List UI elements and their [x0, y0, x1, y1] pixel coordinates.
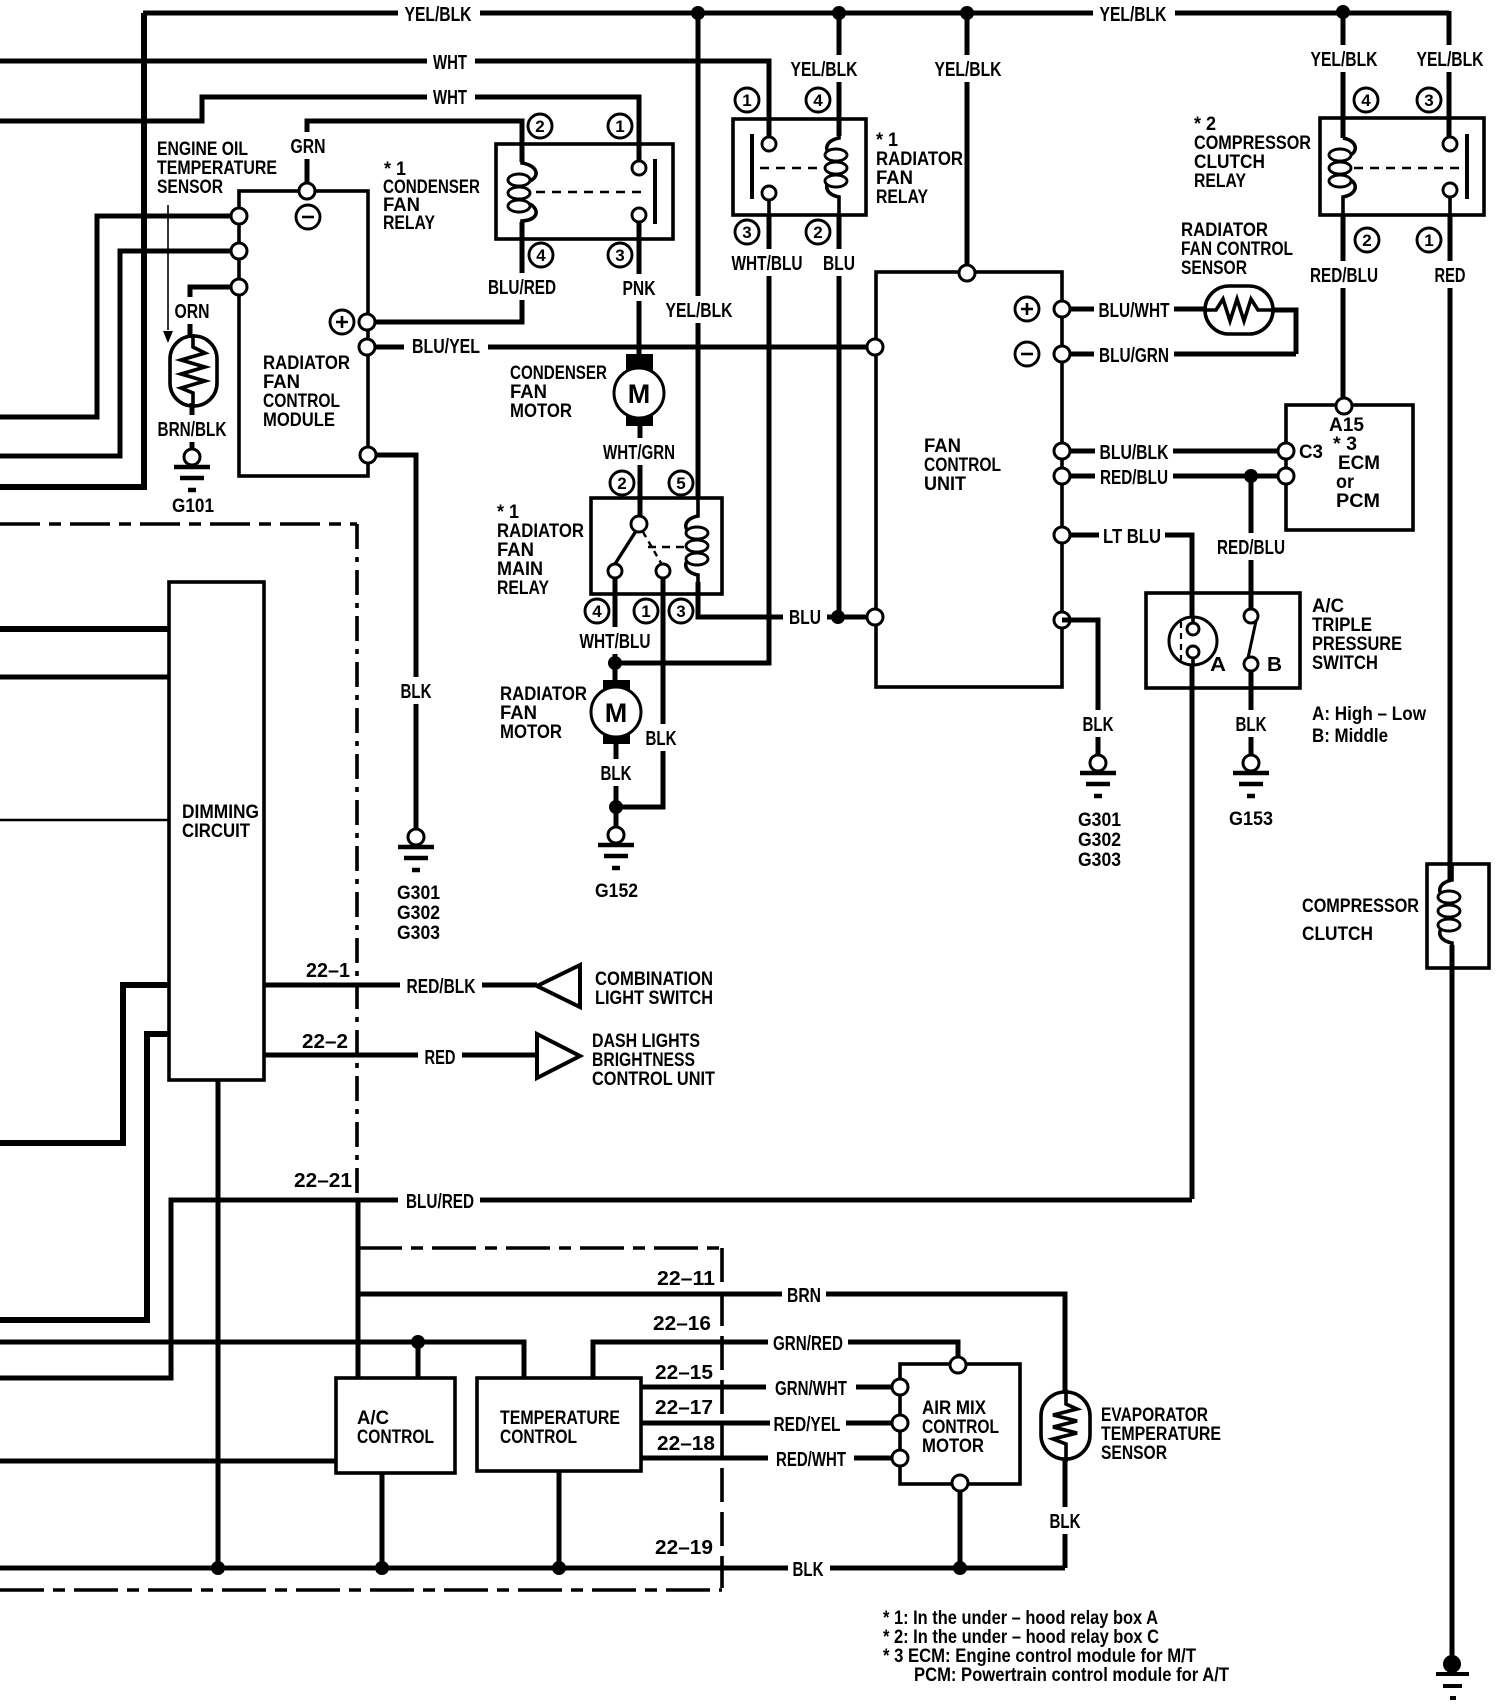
wire left into dimming circuit 2: [0, 675, 169, 680]
wire GRN/WHT: [641, 1385, 900, 1390]
svg-text:G303: G303: [1078, 850, 1121, 871]
wire 22-2 RED to dash lights unit: [264, 1053, 537, 1058]
pin circles radiator fan relay: [735, 88, 759, 112]
pressure switch A sensor circle: [1169, 617, 1217, 665]
label RED/BLK: [400, 972, 482, 999]
svg-text:* 1: * 1: [497, 502, 519, 523]
wire RED/YEL: [641, 1421, 900, 1426]
svg-text:A/C: A/C: [1312, 596, 1344, 617]
svg-text:RELAY: RELAY: [383, 213, 435, 234]
radiator fan control sensor body: [1205, 286, 1273, 334]
label YEL/BLK above fan control unit: [930, 55, 1008, 82]
label WHT upper: [427, 47, 475, 75]
label GRN: [288, 132, 328, 159]
fan control unit right ports: [1054, 301, 1070, 317]
wire YEL/BLK left feeder vertical: [0, 13, 144, 487]
label BLK fan control unit ground: [1077, 710, 1119, 737]
connector 22 dash-dot jog: [358, 1246, 722, 1250]
wire module port1 to left edge: [0, 216, 239, 417]
wire RED compressor relay pin1 to compressor clutch: [1448, 215, 1453, 880]
radiator fan relay box: [733, 119, 866, 215]
compressor relay contact: [1448, 136, 1452, 215]
svg-text:4: 4: [813, 91, 823, 110]
wire 22-19 BLK run: [0, 1566, 1065, 1571]
svg-text:MOTOR: MOTOR: [922, 1436, 984, 1457]
wire BLU main relay pin3 to fan control unit: [698, 582, 875, 617]
svg-text:22–1: 22–1: [306, 960, 350, 982]
fan control unit box: [876, 272, 1062, 687]
svg-text:G301: G301: [397, 883, 440, 904]
wire compressor clutch to ground: [1450, 945, 1455, 1660]
wire A/C control top tap: [416, 1342, 421, 1378]
svg-text:G153: G153: [1229, 809, 1273, 830]
svg-text:RADIATOR: RADIATOR: [497, 521, 584, 542]
wire left into dimming circuit 3 thin: [0, 819, 169, 822]
wire dimming circuit bottom to 22-19: [216, 1080, 221, 1568]
wire BLU/RED condenser relay pin4 to module plus port: [367, 222, 522, 322]
wire left into dimming circuit 1: [0, 626, 169, 632]
svg-text:FAN: FAN: [497, 540, 534, 561]
svg-text:RADIATOR: RADIATOR: [263, 353, 350, 374]
condenser fan motor: [626, 354, 653, 372]
ground compressor clutch: [1443, 1655, 1461, 1673]
svg-text:WHT/BLU: WHT/BLU: [732, 253, 803, 275]
wire main relay pin1 down to BLK junction: [616, 578, 663, 807]
ECM or PCM box: [1286, 405, 1413, 530]
svg-text:BLK: BLK: [401, 681, 432, 703]
evaporator temperature sensor body: [1041, 1392, 1090, 1459]
wire WHT/BLU main relay pin4 to radiator fan motor: [613, 578, 618, 682]
svg-text:G303: G303: [397, 923, 440, 944]
label RED/BLU: [1095, 465, 1173, 489]
svg-text:BRN: BRN: [787, 1285, 821, 1307]
main relay common contact and blade: [631, 516, 647, 532]
label YEL/BLK above pin3: [1411, 45, 1489, 72]
label YEL/BLK above pin4: [1305, 45, 1383, 72]
svg-text:BLU/WHT: BLU/WHT: [1099, 300, 1170, 322]
svg-text:PRESSURE: PRESSURE: [1312, 634, 1402, 655]
svg-text:GRN/WHT: GRN/WHT: [775, 1378, 847, 1400]
compressor relay coil: [1343, 138, 1355, 215]
wire fan control unit left port BLU (drawn in condenser sec) port: [867, 339, 883, 355]
label PNK: [619, 274, 659, 301]
label YEL/BLK on rail middle: [1093, 0, 1175, 28]
wire BRN/BLK oil sensor to ground: [190, 403, 195, 449]
pressure switch B contact: [1244, 609, 1258, 623]
radiator fan motor: [603, 680, 630, 698]
label RED/YEL: [770, 1410, 846, 1437]
svg-text:4: 4: [1361, 91, 1371, 110]
svg-text:DASH LIGHTS: DASH LIGHTS: [592, 1031, 700, 1052]
wire BLK pressure switch B to ground: [1249, 688, 1254, 756]
svg-text:RED/WHT: RED/WHT: [776, 1449, 846, 1471]
wire LT BLU to pressure switch A and down to BLU/RED run: [1062, 535, 1192, 1199]
svg-text:BLU: BLU: [823, 253, 855, 275]
label WHT/BLU below pin3: [729, 249, 807, 276]
wire RED/WHT: [641, 1456, 900, 1461]
svg-text:B: Middle: B: Middle: [1312, 726, 1388, 747]
svg-text:22–16: 22–16: [653, 1313, 711, 1335]
junction dot BLU at fan control unit: [831, 610, 845, 624]
svg-text:BLK: BLK: [646, 728, 677, 750]
wire BLU/BLK to ECM: [1062, 449, 1286, 454]
svg-text:22–15: 22–15: [655, 1362, 713, 1384]
svg-text:DIMMING: DIMMING: [182, 802, 259, 823]
svg-text:MAIN: MAIN: [497, 559, 543, 580]
svg-text:EVAPORATOR: EVAPORATOR: [1101, 1405, 1208, 1426]
wire WHT/GRN motor to main relay: [638, 425, 643, 517]
svg-text:3: 3: [676, 602, 685, 621]
svg-text:CONTROL: CONTROL: [922, 1417, 999, 1438]
junction dot motor ground: [609, 800, 623, 814]
svg-text:RADIATOR: RADIATOR: [876, 149, 963, 170]
svg-text:GRN: GRN: [291, 136, 326, 158]
connector 22 dashed vertical lower: [720, 1248, 724, 1588]
svg-text:RED/BLK: RED/BLK: [407, 976, 476, 998]
ground G153: [1243, 755, 1259, 771]
wire BLU/RED branch down to A/C control: [356, 1200, 361, 1378]
wire YEL/BLK to compressor relay pin4: [1341, 11, 1346, 138]
arrow from sensor label to sensor: [167, 205, 169, 330]
main relay coil: [686, 498, 698, 594]
A/C triple pressure switch box: [1146, 593, 1300, 688]
svg-text:* 3 ECM: Engine control modul: * 3 ECM: Engine control module for M/T: [883, 1646, 1196, 1667]
label YEL/BLK on top rail left: [398, 0, 480, 28]
svg-text:YEL/BLK: YEL/BLK: [935, 59, 1002, 81]
svg-text:22–21: 22–21: [294, 1170, 352, 1192]
svg-text:22–17: 22–17: [655, 1397, 713, 1419]
svg-text:LIGHT SWITCH: LIGHT SWITCH: [595, 988, 713, 1009]
svg-text:FAN: FAN: [876, 168, 913, 189]
svg-text:M: M: [605, 698, 628, 728]
svg-text:WHT: WHT: [433, 52, 467, 74]
svg-text:BLK: BLK: [1083, 714, 1114, 736]
wire left to A/C control: [0, 1459, 336, 1464]
svg-text:* 2: In the under – hood relay: * 2: In the under – hood relay box C: [883, 1627, 1159, 1648]
svg-text:G101: G101: [172, 496, 214, 517]
compressor clutch box: [1427, 864, 1489, 968]
label RED: [418, 1043, 462, 1070]
wire sensor loop to BLU/GRN: [1273, 310, 1296, 354]
svg-text:RADIATOR: RADIATOR: [1181, 220, 1268, 241]
wire YEL/BLK rail end to compressor relay pin3: [1447, 11, 1452, 136]
wire BLU/GRN: [1062, 352, 1296, 357]
svg-text:BLU/YEL: BLU/YEL: [412, 336, 480, 358]
radiator fan main relay box: [591, 498, 722, 594]
label RED/BLU on pressure switch B wire: [1212, 533, 1290, 560]
label BLK below motor: [596, 759, 638, 786]
svg-text:22–2: 22–2: [302, 1031, 348, 1053]
svg-text:G302: G302: [1078, 830, 1121, 851]
svg-text:RED/BLU: RED/BLU: [1217, 537, 1285, 559]
wire left into dimming circuit 5: [0, 1034, 169, 1320]
svg-text:C3: C3: [1299, 442, 1323, 463]
svg-text:FAN: FAN: [510, 382, 547, 403]
svg-text:SENSOR: SENSOR: [157, 177, 223, 198]
svg-text:RED/BLU: RED/BLU: [1310, 265, 1378, 287]
svg-text:4: 4: [536, 246, 546, 265]
svg-text:PCM: PCM: [1336, 491, 1380, 512]
svg-text:2: 2: [617, 474, 626, 493]
junction dot WHT/BLU: [608, 656, 622, 670]
svg-text:RADIATOR: RADIATOR: [500, 684, 587, 705]
wire RED/BLU to ECM: [1062, 474, 1286, 479]
wire ORN module port3 to oil temp sensor: [190, 287, 239, 338]
svg-text:CONTROL: CONTROL: [357, 1427, 434, 1448]
pin circles compressor relay: [1354, 88, 1378, 112]
svg-text:BLU/RED: BLU/RED: [488, 277, 556, 299]
svg-text:CONTROL: CONTROL: [263, 391, 340, 412]
wire GRN net to module top and condenser relay pin2: [307, 121, 522, 187]
label WHT/GRN: [598, 438, 680, 465]
radiator fan relay coil: [827, 119, 839, 215]
svg-text:BLK: BLK: [793, 1559, 824, 1581]
label GRN/RED: [768, 1329, 848, 1356]
svg-text:CONDENSER: CONDENSER: [510, 363, 607, 384]
connector 22 dash-dot boundary lower: [0, 1588, 722, 1592]
svg-text:* 3: * 3: [1333, 434, 1357, 455]
label BLK below evaporator sensor: [1044, 1507, 1086, 1534]
svg-text:CONTROL: CONTROL: [500, 1427, 577, 1448]
label RED/WHT: [768, 1445, 854, 1472]
junction dots on 22-19 run: [211, 1561, 225, 1575]
wire module lower port to ground: [368, 455, 416, 830]
air mix motor ports: [950, 1357, 966, 1373]
svg-text:YEL/BLK: YEL/BLK: [1100, 4, 1167, 26]
label BLK right of pin1 wire: [641, 724, 683, 751]
svg-text:MOTOR: MOTOR: [510, 401, 572, 422]
svg-text:BLK: BLK: [1236, 714, 1267, 736]
svg-text:2: 2: [1362, 231, 1371, 250]
module ports left: [231, 208, 247, 224]
svg-text:RELAY: RELAY: [497, 578, 549, 599]
wire temperature control bottom: [557, 1471, 562, 1568]
label ORN: [172, 297, 212, 324]
svg-text:FAN: FAN: [500, 703, 537, 724]
svg-text:1: 1: [641, 602, 650, 621]
radiator fan relay contact: [767, 136, 771, 215]
svg-text:YEL/BLK: YEL/BLK: [405, 4, 472, 26]
ground G301 G302 G303 left: [408, 829, 424, 845]
svg-text:3: 3: [742, 223, 751, 242]
svg-text:5: 5: [676, 474, 685, 493]
svg-text:YEL/BLK: YEL/BLK: [791, 59, 858, 81]
svg-text:TEMPERATURE: TEMPERATURE: [1101, 1424, 1221, 1445]
svg-text:BLK: BLK: [1050, 1511, 1081, 1533]
svg-text:COMPRESSOR: COMPRESSOR: [1302, 896, 1419, 917]
label YEL/BLK on vertical x698: [662, 296, 738, 323]
svg-text:COMBINATION: COMBINATION: [595, 969, 713, 990]
svg-text:RED/BLU: RED/BLU: [1100, 467, 1168, 489]
wire RED/BLU compressor relay pin2 to ECM: [1341, 215, 1346, 398]
svg-text:RED: RED: [1435, 265, 1466, 287]
wire BLK motor to ground: [614, 743, 619, 828]
svg-text:TRIPLE: TRIPLE: [1312, 615, 1372, 636]
wire PNK condenser relay pin3 to condenser fan motor: [637, 222, 642, 355]
svg-text:1: 1: [615, 117, 624, 136]
wire WHT lower from left to condenser fan relay pin1: [0, 97, 639, 160]
label RED below pin1: [1429, 261, 1471, 288]
dash lights triangle: [537, 1034, 580, 1078]
minus symbol on module: [296, 205, 320, 229]
svg-text:RED/YEL: RED/YEL: [774, 1414, 841, 1436]
svg-text:SWITCH: SWITCH: [1312, 653, 1378, 674]
svg-text:YEL/BLK: YEL/BLK: [666, 300, 733, 322]
label LT BLU: [1099, 522, 1165, 549]
svg-text:A: A: [1210, 654, 1226, 676]
pin circles condenser relay: [528, 114, 552, 138]
svg-text:ORN: ORN: [175, 301, 210, 323]
ECM left ports: [1278, 443, 1294, 459]
svg-text:1: 1: [1424, 231, 1433, 250]
svg-text:FAN CONTROL: FAN CONTROL: [1181, 239, 1293, 260]
wire BLU radiator fan relay pin2 down: [837, 215, 842, 617]
svg-text:ECM: ECM: [1338, 453, 1380, 474]
ground G152: [608, 827, 624, 843]
svg-text:or: or: [1336, 472, 1355, 493]
svg-text:PNK: PNK: [623, 278, 656, 300]
radiator fan control module box: [239, 191, 368, 476]
dimming circuit box: [169, 582, 264, 1080]
module ports right: [359, 314, 375, 330]
wire air mix motor bottom: [958, 1484, 963, 1568]
svg-text:MODULE: MODULE: [263, 410, 335, 431]
label BLU below pin2: [817, 249, 861, 276]
svg-text:G152: G152: [595, 881, 638, 902]
svg-text:* 1: In the under – hood relay: * 1: In the under – hood relay box A: [883, 1608, 1158, 1629]
wire A/C control bottom: [380, 1473, 385, 1568]
svg-text:GRN/RED: GRN/RED: [773, 1333, 843, 1355]
wire 22-16 left segment into temperature control: [0, 1342, 524, 1378]
svg-text:FAN: FAN: [924, 436, 961, 457]
svg-text:BLU: BLU: [789, 607, 821, 629]
svg-text:WHT: WHT: [433, 87, 467, 109]
wire evaporator sensor bottom to BLK run: [1063, 1459, 1068, 1568]
air mix control motor box: [900, 1364, 1020, 1484]
svg-text:3: 3: [1424, 91, 1433, 110]
wire YEL/BLK rail to radiator fan relay pin4: [837, 13, 842, 136]
svg-text:TEMPERATURE: TEMPERATURE: [500, 1408, 620, 1429]
wire 22-21 BLU/RED long run: [0, 1200, 1192, 1378]
engine oil temperature sensor body: [170, 336, 217, 406]
ground G101: [184, 449, 200, 465]
svg-text:RELAY: RELAY: [1194, 171, 1246, 192]
label BLU/WHT: [1094, 296, 1174, 323]
svg-text:ENGINE OIL: ENGINE OIL: [157, 139, 248, 160]
svg-text:CONTROL UNIT: CONTROL UNIT: [592, 1069, 715, 1090]
label BLU/YEL: [404, 332, 488, 360]
label BRN: [782, 1281, 826, 1308]
svg-text:AIR MIX: AIR MIX: [922, 1398, 986, 1419]
condenser fan relay coil: [522, 144, 536, 239]
wire GRN/RED temperature control to air mix motor: [593, 1342, 958, 1378]
A/C control box: [336, 1378, 455, 1473]
svg-text:BLU/RED: BLU/RED: [406, 1191, 474, 1213]
label BLK on module ground wire: [395, 677, 437, 704]
svg-text:CIRCUIT: CIRCUIT: [182, 821, 250, 842]
svg-text:BLU/BLK: BLU/BLK: [1100, 442, 1169, 464]
svg-text:1: 1: [742, 91, 751, 110]
pin circles main relay: [610, 471, 634, 495]
wire YEL/BLK rail to main relay coil: [696, 13, 701, 498]
svg-text:A: High – Low: A: High – Low: [1312, 704, 1426, 725]
label YEL/BLK above radiator fan relay: [786, 55, 864, 82]
combination light switch triangle: [537, 965, 580, 1007]
svg-text:RELAY: RELAY: [876, 187, 928, 208]
svg-text:* 1: * 1: [876, 130, 898, 151]
svg-text:CLUTCH: CLUTCH: [1302, 924, 1373, 945]
wire 22-11 BRN to evaporator sensor: [358, 1294, 1065, 1392]
label BLU/RED: [398, 1187, 480, 1214]
connector 22 dashed vertical upper: [355, 524, 359, 1200]
svg-text:SENSOR: SENSOR: [1101, 1443, 1167, 1464]
ECM top port: [1336, 398, 1352, 414]
svg-text:RED: RED: [425, 1047, 456, 1069]
svg-text:G301: G301: [1078, 810, 1121, 831]
svg-text:4: 4: [592, 602, 602, 621]
condenser fan relay contact: [637, 144, 641, 239]
fan control unit top port: [959, 265, 975, 281]
plus symbol on module: [330, 310, 354, 334]
junction dots on YEL/BLK rail: [691, 6, 705, 20]
svg-text:WHT/BLU: WHT/BLU: [580, 631, 651, 653]
svg-text:CLUTCH: CLUTCH: [1194, 152, 1265, 173]
svg-text:MOTOR: MOTOR: [500, 722, 562, 743]
svg-text:3: 3: [615, 246, 624, 265]
svg-text:A/C: A/C: [357, 1408, 389, 1429]
label GRN/WHT: [766, 1374, 856, 1401]
module port top (GRN): [299, 183, 315, 199]
label BLU/RED: [484, 273, 560, 300]
label BRN/BLK: [155, 415, 231, 442]
svg-text:BLU/GRN: BLU/GRN: [1099, 345, 1169, 367]
compressor clutch relay box: [1320, 118, 1484, 215]
wire YEL/BLK rail to fan control unit top: [965, 13, 970, 272]
svg-text:G302: G302: [397, 903, 440, 924]
connector 22 dash-dot boundary upper: [0, 522, 357, 526]
svg-text:FAN: FAN: [263, 372, 300, 393]
wire module port2 to left edge: [0, 251, 239, 456]
svg-text:22–18: 22–18: [657, 1433, 715, 1455]
minus symbol fan control unit: [1015, 342, 1039, 366]
svg-text:BRN/BLK: BRN/BLK: [158, 419, 227, 441]
svg-text:CONTROL: CONTROL: [924, 455, 1001, 476]
svg-text:2: 2: [813, 223, 822, 242]
wire BLU/WHT to radiator fan control sensor: [1062, 307, 1205, 312]
wire YEL/BLK top rail: [143, 11, 1449, 16]
wire BLU/YEL module to fan control unit: [367, 345, 875, 350]
wire RED/BLU junction down to pressure switch B: [1249, 476, 1254, 609]
svg-text:SENSOR: SENSOR: [1181, 258, 1247, 279]
junction dot GRN/RED tap: [411, 1335, 425, 1349]
plus symbol fan control unit: [1015, 297, 1039, 321]
svg-text:22–19: 22–19: [655, 1537, 713, 1559]
svg-text:UNIT: UNIT: [924, 474, 966, 495]
junction dot RED/BLU: [1244, 469, 1258, 483]
svg-text:TEMPERATURE: TEMPERATURE: [157, 158, 277, 179]
junction dot rail at pin4: [1336, 5, 1350, 19]
temperature control box: [477, 1378, 641, 1471]
svg-text:LT BLU: LT BLU: [1103, 526, 1161, 548]
svg-text:BRIGHTNESS: BRIGHTNESS: [592, 1050, 695, 1071]
svg-text:* 2: * 2: [1194, 114, 1216, 135]
wire WHT upper from left to radiator fan relay pin1: [0, 61, 769, 136]
label BLU/BLK: [1095, 440, 1173, 464]
ground G301 G302 G303 right: [1090, 755, 1106, 771]
wire 22-1 RED/BLK to combination light switch: [264, 983, 537, 988]
svg-text:2: 2: [535, 117, 544, 136]
svg-text:COMPRESSOR: COMPRESSOR: [1194, 133, 1311, 154]
